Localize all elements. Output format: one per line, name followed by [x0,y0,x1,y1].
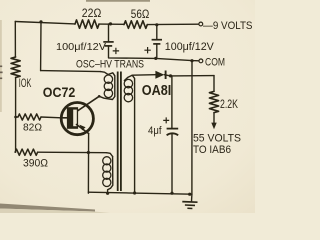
svg-text:OSC–HV TRANS: OSC–HV TRANS [76,59,144,71]
svg-text:100μf/12V: 100μf/12V [56,42,106,53]
svg-text:100μf/12V: 100μf/12V [165,41,215,53]
svg-text:COM: COM [205,57,225,69]
svg-text:56Ω: 56Ω [131,8,150,21]
svg-text:82Ω: 82Ω [23,123,42,134]
svg-text:22Ω: 22Ω [82,7,102,20]
svg-text:390Ω: 390Ω [23,158,48,170]
svg-text:OA8I: OA8I [142,83,172,99]
svg-text:OC72: OC72 [43,85,76,100]
svg-text:TO IAB6: TO IAB6 [193,144,231,156]
svg-text:2.2K: 2.2K [220,98,238,111]
svg-text:IOK: IOK [19,77,32,90]
svg-text:—9 VOLTS: —9 VOLTS [203,20,253,32]
svg-text:55 VOLTS: 55 VOLTS [193,133,241,145]
svg-text:4μf: 4μf [148,125,162,137]
